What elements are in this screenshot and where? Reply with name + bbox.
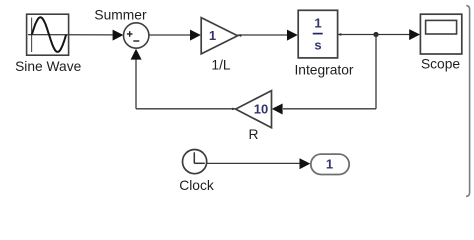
svg-text:Scope: Scope bbox=[421, 57, 460, 72]
svg-text:Clock: Clock bbox=[179, 178, 214, 193]
svg-text:Summer: Summer bbox=[94, 8, 147, 23]
svg-text:1: 1 bbox=[326, 157, 333, 172]
svg-text:1: 1 bbox=[314, 15, 321, 30]
svg-text:Integrator: Integrator bbox=[294, 63, 353, 78]
svg-text:s: s bbox=[314, 37, 321, 52]
svg-text:1/L: 1/L bbox=[211, 58, 231, 73]
svg-text:10: 10 bbox=[254, 102, 268, 117]
svg-text:R: R bbox=[249, 127, 259, 142]
svg-text:Sine Wave: Sine Wave bbox=[15, 59, 82, 74]
svg-text:1: 1 bbox=[209, 28, 216, 43]
